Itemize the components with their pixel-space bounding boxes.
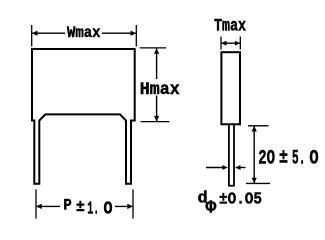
svg-text:Tmax: Tmax bbox=[214, 17, 246, 37]
svg-text:±O.O5: ±O.O5 bbox=[219, 191, 262, 210]
svg-text:±: ± bbox=[76, 198, 85, 216]
svg-text:±: ± bbox=[279, 147, 288, 169]
svg-text:P: P bbox=[63, 197, 71, 215]
svg-text:1.: 1. bbox=[87, 200, 99, 220]
svg-text:Wmax: Wmax bbox=[67, 24, 101, 42]
svg-text:O: O bbox=[309, 148, 318, 171]
svg-text:2O: 2O bbox=[258, 148, 275, 171]
svg-text:Φ: Φ bbox=[206, 199, 217, 219]
svg-text:Hmax: Hmax bbox=[140, 80, 180, 100]
svg-text:5.: 5. bbox=[292, 148, 306, 171]
svg-text:O: O bbox=[104, 200, 113, 220]
